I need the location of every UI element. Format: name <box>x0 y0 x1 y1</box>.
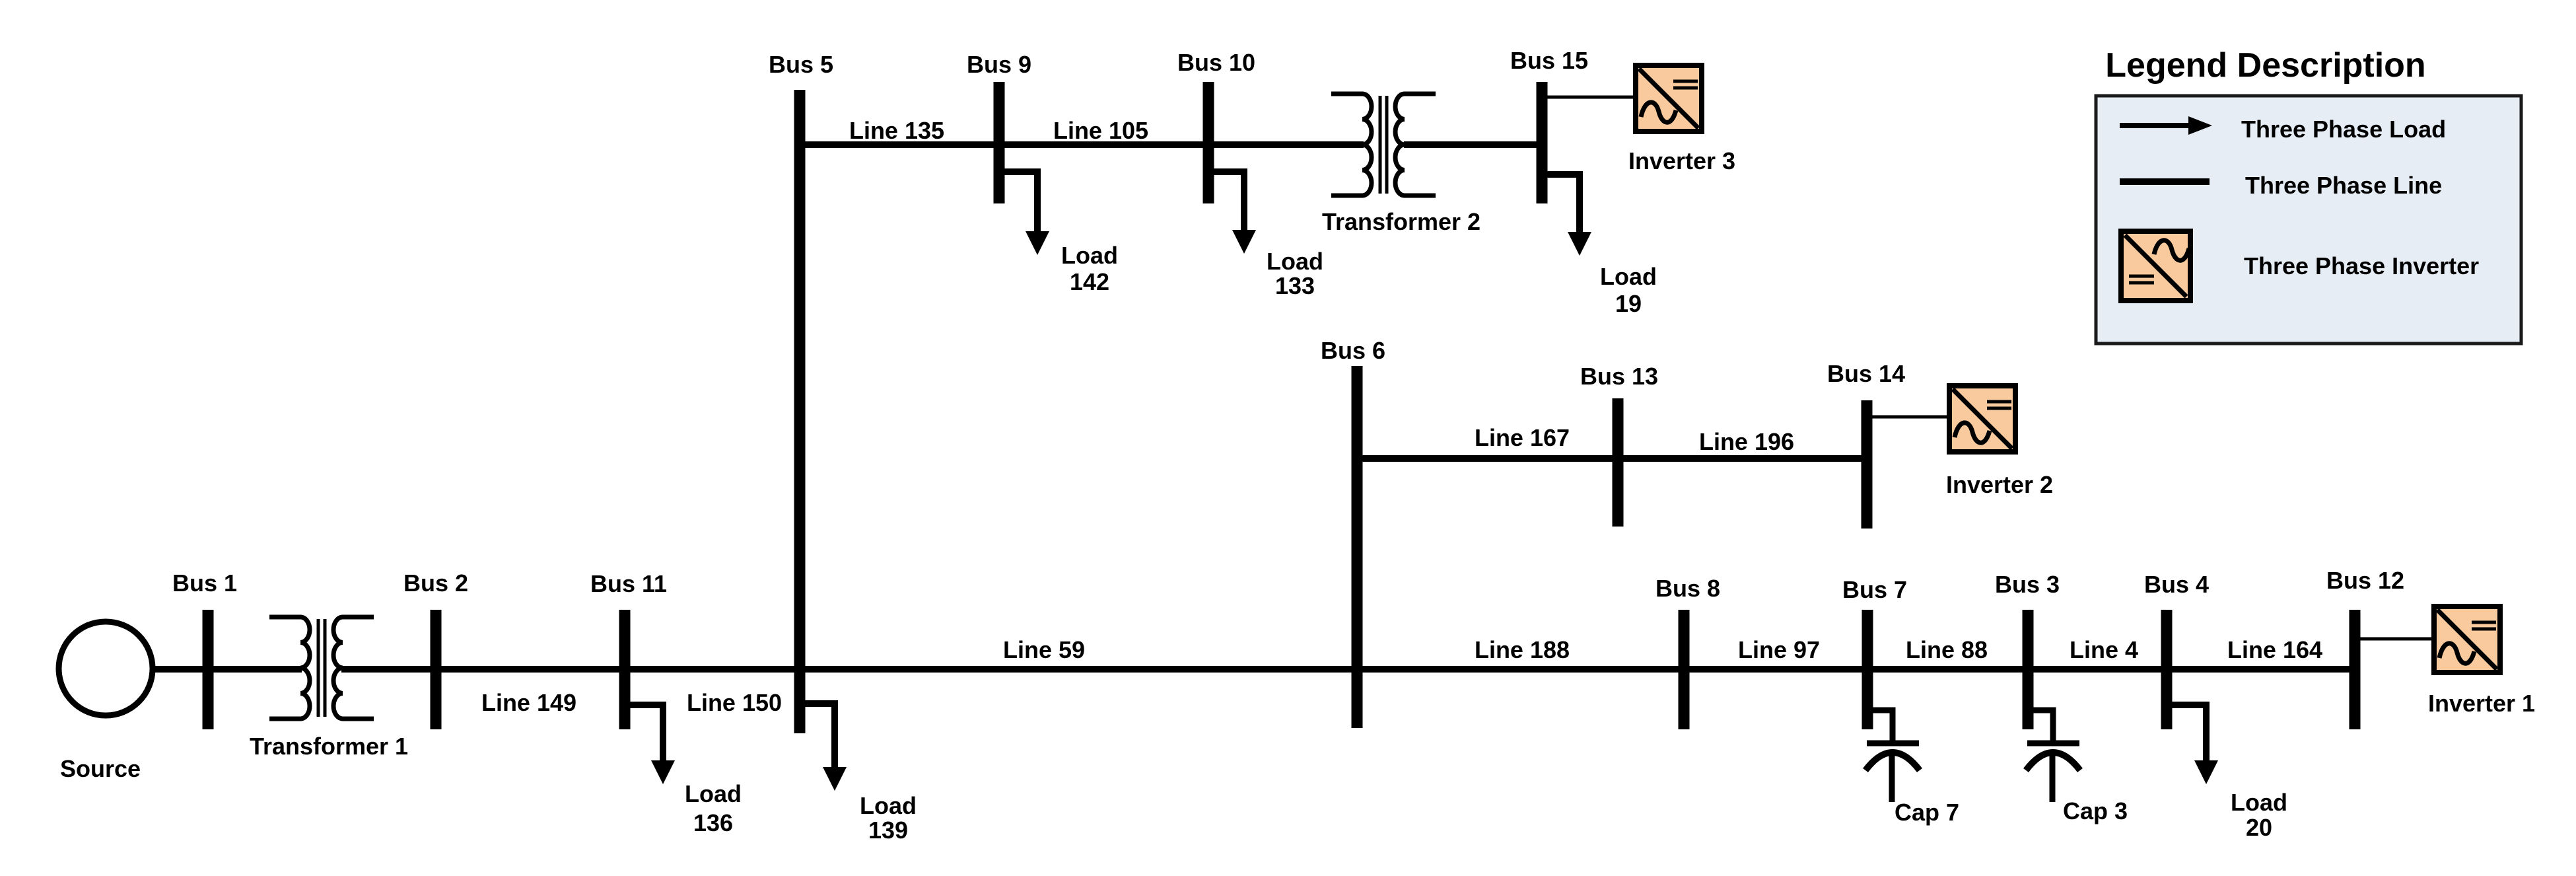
svg-text:Line 150: Line 150 <box>687 689 782 716</box>
svg-text:Bus 12: Bus 12 <box>2326 567 2404 594</box>
svg-text:Cap 3: Cap 3 <box>2063 797 2128 824</box>
svg-text:Bus 6: Bus 6 <box>1321 337 1385 364</box>
svg-text:Load: Load <box>1061 242 1118 269</box>
svg-text:Inverter 3: Inverter 3 <box>1628 147 1735 174</box>
svg-text:Bus 4: Bus 4 <box>2144 571 2209 598</box>
svg-text:Load: Load <box>1267 248 1323 275</box>
svg-text:Bus 8: Bus 8 <box>1655 575 1720 602</box>
svg-text:Transformer 2: Transformer 2 <box>1322 208 1480 235</box>
svg-text:Bus 14: Bus 14 <box>1827 360 1905 387</box>
svg-text:Bus 7: Bus 7 <box>1842 576 1907 603</box>
svg-text:Line 196: Line 196 <box>1699 428 1794 455</box>
svg-text:Transformer 1: Transformer 1 <box>250 733 408 760</box>
svg-text:142: 142 <box>1070 268 1109 295</box>
svg-text:Bus 2: Bus 2 <box>403 569 468 597</box>
svg-text:19: 19 <box>1615 290 1642 317</box>
svg-text:Bus 15: Bus 15 <box>1510 47 1588 74</box>
svg-text:Line 97: Line 97 <box>1738 636 1820 663</box>
svg-text:Inverter 2: Inverter 2 <box>1946 471 2053 498</box>
svg-text:133: 133 <box>1275 272 1315 299</box>
svg-text:Line 188: Line 188 <box>1475 636 1570 663</box>
svg-text:Line 149: Line 149 <box>481 689 576 716</box>
svg-text:Bus 10: Bus 10 <box>1177 49 1255 76</box>
svg-text:Bus 1: Bus 1 <box>172 569 237 597</box>
svg-text:Bus 5: Bus 5 <box>769 51 833 78</box>
svg-text:Line 88: Line 88 <box>1906 636 1988 663</box>
svg-text:20: 20 <box>2246 814 2272 841</box>
svg-text:Line 4: Line 4 <box>2070 636 2138 663</box>
svg-text:Three Phase Load: Three Phase Load <box>2241 116 2446 143</box>
svg-text:Cap 7: Cap 7 <box>1895 799 1959 826</box>
svg-text:Bus 3: Bus 3 <box>1995 571 2060 598</box>
svg-text:Line 59: Line 59 <box>1003 636 1085 663</box>
svg-text:139: 139 <box>868 817 908 844</box>
svg-text:Bus 13: Bus 13 <box>1580 363 1658 390</box>
svg-text:Three Phase Line: Three Phase Line <box>2245 172 2442 199</box>
svg-text:Line 164: Line 164 <box>2227 636 2322 663</box>
svg-text:Three Phase Inverter: Three Phase Inverter <box>2244 252 2479 279</box>
svg-text:Inverter 1: Inverter 1 <box>2428 690 2535 717</box>
svg-text:136: 136 <box>693 809 733 836</box>
svg-text:Line 105: Line 105 <box>1053 117 1148 144</box>
svg-text:Source: Source <box>60 755 141 782</box>
svg-text:Bus 9: Bus 9 <box>967 51 1031 78</box>
svg-text:Load: Load <box>2231 789 2287 816</box>
svg-text:Load: Load <box>1600 263 1657 290</box>
svg-text:Load: Load <box>685 780 742 807</box>
svg-text:Load: Load <box>860 792 917 819</box>
svg-text:Line 167: Line 167 <box>1475 424 1570 451</box>
svg-text:Bus 11: Bus 11 <box>590 570 667 597</box>
svg-text:Line 135: Line 135 <box>849 117 944 144</box>
svg-text:Legend Description: Legend Description <box>2105 46 2425 85</box>
